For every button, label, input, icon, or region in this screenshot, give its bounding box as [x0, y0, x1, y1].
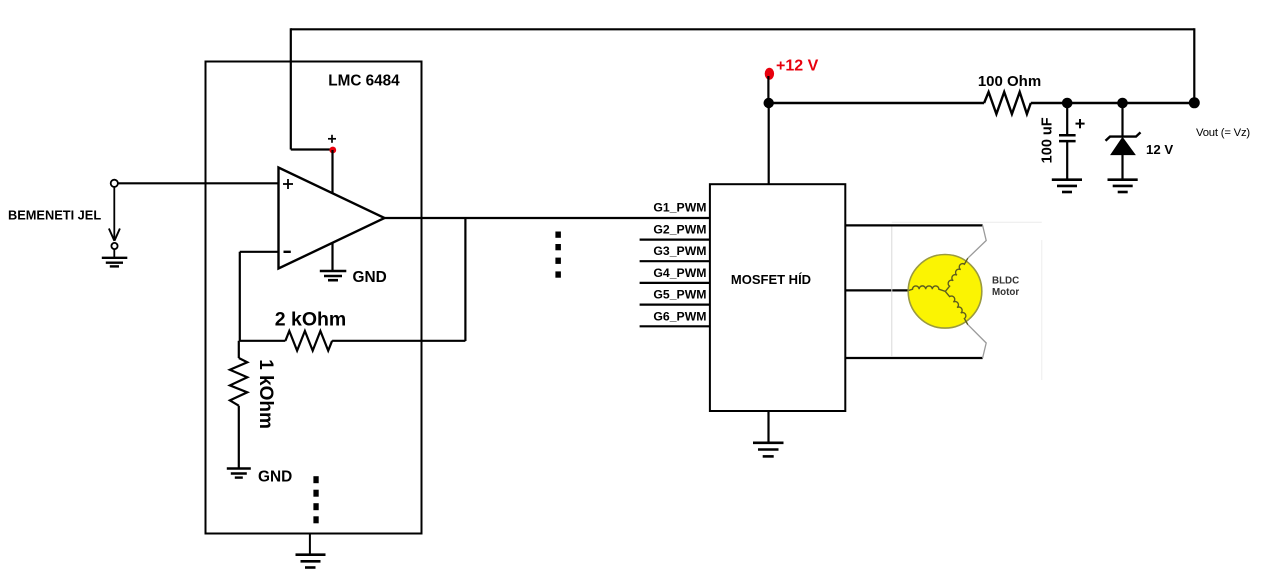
wire bridge to motor phase A [845, 224, 982, 226]
svg-text:1 kOhm: 1 kOhm [255, 359, 276, 429]
node capacitor junction [1062, 98, 1073, 109]
svg-text:100 Ohm: 100 Ohm [978, 73, 1041, 90]
zener diode D triangle [1111, 138, 1135, 155]
wire feedback horizontal right segment [332, 340, 465, 342]
wire stub G6 [640, 325, 710, 327]
svg-text:G1_PWM: G1_PWM [653, 201, 706, 215]
node V+ red dot [329, 147, 336, 154]
ground 1 kOhm [227, 469, 251, 478]
svg-text:2 kOhm: 2 kOhm [275, 309, 347, 331]
wire V+ stem into op-amp [331, 150, 333, 194]
capacitor C 100uF plates [1059, 135, 1076, 141]
wire LMC box bottom stem [309, 534, 311, 555]
svg-text:Vout (= Vz): Vout (= Vz) [1196, 127, 1250, 139]
wire bridge to motor phase C [845, 357, 982, 359]
motor image right edge (faint) [1041, 240, 1043, 380]
wire top horizontal rail [291, 28, 1195, 30]
wire terminal down stem [113, 187, 115, 240]
label + at V+ [328, 135, 336, 143]
motor winding lower right [945, 291, 968, 324]
wire zener to ground [1121, 154, 1123, 179]
arrowhead down [109, 229, 120, 241]
svg-text:G6_PWM: G6_PWM [653, 309, 706, 323]
wire into input ground [113, 249, 115, 258]
wire stub G4 [640, 282, 710, 284]
label - input [284, 251, 291, 253]
motor winding left [909, 286, 946, 292]
ellipsis dots column mid [555, 232, 561, 278]
ground op-amp [320, 271, 347, 280]
svg-text:LMC 6484: LMC 6484 [328, 72, 400, 89]
resistor 2 kOhm zigzag [285, 331, 332, 351]
wire 100 Ohm to Vout node [1031, 102, 1195, 104]
wire left vertical from rail down to op-amp V+ [290, 28, 292, 149]
node junction at +12V rail [764, 98, 774, 108]
wire capacitor to ground [1066, 141, 1068, 179]
motor image top edge (faint) [892, 221, 1042, 223]
BLDC motor body [908, 254, 982, 328]
svg-text:Motor: Motor [992, 287, 1019, 298]
wire horizontal into V+ dot [291, 148, 333, 150]
wire phase C gray lead [968, 325, 986, 358]
wire op-amp ground stem [331, 243, 333, 270]
wire output of op-amp to MOSFET bridge (G1 line) [385, 217, 710, 219]
wire node to zener [1121, 103, 1123, 137]
wire stub G2 [640, 239, 710, 241]
IC box LMC 6484 [206, 62, 422, 534]
wire 1k to ground [238, 406, 240, 468]
svg-text:BLDC: BLDC [992, 276, 1019, 287]
svg-text:G4_PWM: G4_PWM [653, 266, 706, 280]
label + of capacitor [1076, 119, 1085, 128]
wire feedback horizontal left segment [240, 340, 286, 342]
zener diode D 12V cathode bar [1106, 132, 1141, 140]
motor image left edge (faint) [891, 227, 893, 358]
label + input [283, 179, 293, 189]
svg-text:+12 V: +12 V [776, 58, 819, 75]
svg-text:G2_PWM: G2_PWM [653, 223, 706, 237]
wire bridge to motor phase B [845, 289, 908, 291]
svg-text:12 V: 12 V [1146, 142, 1173, 157]
wire stub G3 [640, 260, 710, 262]
wire input to + input [118, 182, 279, 184]
node Vout [1189, 97, 1200, 108]
motor winding upper right [945, 258, 968, 291]
svg-text:GND: GND [353, 269, 387, 286]
wire +12V dot to rail node [767, 76, 769, 103]
svg-text:G3_PWM: G3_PWM [653, 244, 706, 258]
svg-text:G5_PWM: G5_PWM [653, 288, 706, 302]
resistor 100 Ohm zigzag [984, 92, 1031, 114]
wire feedback vertical tap [464, 218, 466, 341]
wire between feedback node and 1k [238, 341, 240, 358]
wire phase A gray lead [968, 225, 986, 258]
wire inverting input vertical down to feedback node [239, 252, 241, 341]
svg-text:BEMENETI JEL: BEMENETI JEL [8, 208, 101, 223]
wire +12V rail to 100 Ohm [768, 102, 984, 104]
ground MOSFET bridge [753, 443, 784, 457]
svg-text:100 uF: 100 uF [1040, 117, 1056, 163]
node +12V red dot [765, 68, 774, 80]
svg-text:MOSFET HÍD: MOSFET HÍD [731, 272, 811, 287]
wire right vertical from rail down to Vout node [1193, 28, 1195, 103]
ground input [102, 258, 128, 267]
small terminal circle above input ground [111, 243, 117, 249]
op-amp U1 triangle [279, 168, 385, 269]
svg-text:GND: GND [258, 468, 292, 485]
resistor 1 kOhm zigzag vertical [230, 358, 247, 406]
ellipsis dots column bottom [313, 476, 318, 523]
wire bridge bottom stem [767, 411, 769, 442]
ground zener [1108, 180, 1138, 192]
node zener junction [1117, 98, 1128, 109]
wire inverting input horizontal [240, 251, 279, 253]
wire +12V down into bridge [768, 103, 770, 184]
wire node to capacitor [1066, 103, 1068, 135]
ground LMC box [296, 555, 326, 568]
MOSFET bridge box [710, 184, 845, 411]
input terminal circle [111, 180, 118, 187]
wire stub G5 [640, 304, 710, 306]
ground capacitor [1052, 180, 1082, 192]
